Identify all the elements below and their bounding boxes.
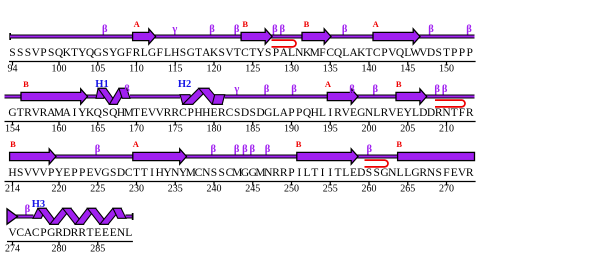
svg-text:185: 185	[245, 124, 260, 135]
svg-text:255: 255	[323, 184, 338, 195]
svg-text:130: 130	[284, 64, 299, 75]
svg-text:225: 225	[90, 184, 105, 195]
svg-text:β: β	[95, 144, 101, 155]
svg-text:β: β	[428, 24, 434, 35]
svg-text:SSSVPSQKTYQGSYGFRLGFLHSGTAKSVT: SSSVPSQKTYQGSYGFRLGFLHSGTAKSVTCTYSPALNKM…	[9, 47, 473, 59]
beta strand B (res 251-258)	[297, 149, 358, 164]
ruler numbers	[5, 244, 105, 255]
svg-text:B: B	[296, 139, 302, 149]
svg-text:190: 190	[284, 124, 299, 135]
beta strand A (res 110-112)	[133, 29, 156, 44]
main chain line row 4 (segment 1)	[7, 215, 34, 219]
svg-text:B: B	[242, 19, 248, 29]
beta strand B (res 214-219)	[10, 149, 56, 164]
svg-text:195: 195	[323, 124, 338, 135]
svg-text:180: 180	[207, 124, 222, 135]
svg-text:γ: γ	[171, 24, 177, 35]
svg-text:H2: H2	[178, 79, 191, 90]
beta strand A (res 230-236)	[133, 149, 187, 164]
svg-text:170: 170	[129, 124, 144, 135]
main chain line row 2 (segment 2)	[130, 95, 180, 99]
svg-text:285: 285	[90, 244, 105, 255]
ruler row starting 154	[5, 122, 476, 126]
beta hairpin loop row 2	[435, 100, 465, 107]
helix H3 (res 278-286)	[33, 208, 126, 224]
svg-text:100: 100	[52, 64, 67, 75]
svg-text:B: B	[396, 139, 402, 149]
helix H2 (res 177-181)	[180, 88, 225, 104]
svg-text:B: B	[304, 19, 310, 29]
svg-text:235: 235	[168, 184, 183, 195]
svg-text:β: β	[102, 24, 108, 35]
svg-text:β: β	[291, 84, 297, 95]
svg-text:β: β	[211, 144, 217, 155]
svg-text:274: 274	[5, 244, 20, 255]
svg-text:220: 220	[52, 184, 67, 195]
svg-text:β: β	[349, 84, 355, 95]
ruler numbers	[5, 124, 454, 135]
svg-text:140: 140	[362, 64, 377, 75]
svg-text:β: β	[342, 24, 348, 35]
svg-text:A: A	[325, 79, 332, 89]
svg-text:145: 145	[400, 64, 415, 75]
svg-text:β: β	[250, 144, 256, 155]
svg-text:β: β	[442, 84, 448, 95]
svg-text:β: β	[272, 24, 278, 35]
svg-text:H3: H3	[32, 199, 45, 210]
svg-text:B: B	[23, 79, 29, 89]
main chain line row 1	[10, 35, 475, 39]
beta strand B (res 124-127)	[241, 29, 272, 44]
svg-text:β: β	[234, 144, 240, 155]
svg-text:230: 230	[129, 184, 144, 195]
beta strand A (res 195-198)	[327, 89, 358, 104]
svg-text:B: B	[10, 139, 16, 149]
main chain line row 2 (segment 3)	[225, 95, 475, 99]
ruler row starting 94	[9, 62, 476, 66]
main chain line row 4 (segment 2)	[126, 215, 133, 219]
svg-text:120: 120	[207, 64, 222, 75]
svg-text:A: A	[133, 139, 140, 149]
svg-text:94: 94	[8, 64, 18, 75]
chain end cap	[132, 213, 134, 220]
svg-text:265: 265	[400, 184, 415, 195]
svg-text:110: 110	[129, 64, 144, 75]
beta hairpin loop row 3	[365, 160, 388, 167]
svg-text:200: 200	[362, 124, 377, 135]
svg-text:β: β	[25, 204, 31, 215]
svg-text:135: 135	[323, 64, 338, 75]
svg-text:β: β	[373, 84, 379, 95]
svg-text:214: 214	[5, 184, 20, 195]
svg-text:280: 280	[52, 244, 67, 255]
svg-text:β: β	[466, 24, 472, 35]
svg-text:β: β	[209, 24, 215, 35]
svg-text:245: 245	[245, 184, 260, 195]
chain start cap	[9, 33, 11, 40]
svg-text:125: 125	[245, 64, 260, 75]
svg-text:115: 115	[168, 64, 183, 75]
svg-text:GTRVRAMAIYKQSQHMTEVVRRCPHHERCS: GTRVRAMAIYKQSQHMTEVVRRCPHHERCSDSDGLAPPQH…	[8, 107, 474, 119]
svg-text:H1: H1	[95, 79, 108, 90]
main chain line row 3	[10, 155, 475, 159]
beta strand B continuing (res 264-273)	[398, 152, 475, 160]
svg-text:165: 165	[90, 124, 105, 135]
ruler row starting 274	[7, 242, 133, 246]
beta strand A (res 141-146)	[373, 29, 420, 44]
svg-text:B: B	[396, 79, 402, 89]
svg-text:160: 160	[52, 124, 67, 135]
beta strand B (res 132-135)	[302, 29, 331, 44]
svg-text:β: β	[264, 84, 270, 95]
svg-text:β: β	[367, 144, 373, 155]
svg-text:175: 175	[168, 124, 183, 135]
svg-text:105: 105	[90, 64, 105, 75]
svg-text:A: A	[134, 19, 141, 29]
svg-text:270: 270	[439, 184, 454, 195]
svg-text:154: 154	[5, 124, 20, 135]
svg-text:VCACPGRDRRTEEENL: VCACPGRDRRTEEENL	[8, 227, 132, 239]
svg-text:β: β	[434, 84, 440, 95]
svg-text:β: β	[234, 24, 240, 35]
beta strand B (res 156-163)	[21, 89, 88, 104]
svg-text:β: β	[265, 144, 271, 155]
svg-text:205: 205	[400, 124, 415, 135]
ruler numbers	[8, 64, 455, 75]
svg-text:β: β	[242, 144, 248, 155]
helix H1 (res 165-169)	[96, 88, 130, 104]
ruler row starting 214	[5, 182, 476, 186]
beta strand B (res 204-207)	[396, 89, 427, 104]
svg-text:β: β	[124, 84, 130, 95]
svg-text:260: 260	[362, 184, 377, 195]
svg-text:210: 210	[439, 124, 454, 135]
arrowhead of strand B continued from row 3	[7, 209, 18, 224]
svg-text:HSVVVPYEPPEVGSDCTTIHYNYMCNSSCM: HSVVVPYEPPEVGSDCTTIHYNYMCNSSCMGGMNRRPILT…	[8, 167, 474, 179]
svg-text:γ: γ	[233, 84, 239, 95]
svg-text:A: A	[373, 19, 380, 29]
svg-text:150: 150	[439, 64, 454, 75]
ruler numbers	[5, 184, 454, 195]
beta hairpin loop row 1	[272, 40, 297, 47]
svg-text:250: 250	[284, 184, 299, 195]
svg-text:β: β	[280, 24, 286, 35]
main chain line row 2 (segment 1)	[5, 95, 97, 99]
svg-text:240: 240	[207, 184, 222, 195]
